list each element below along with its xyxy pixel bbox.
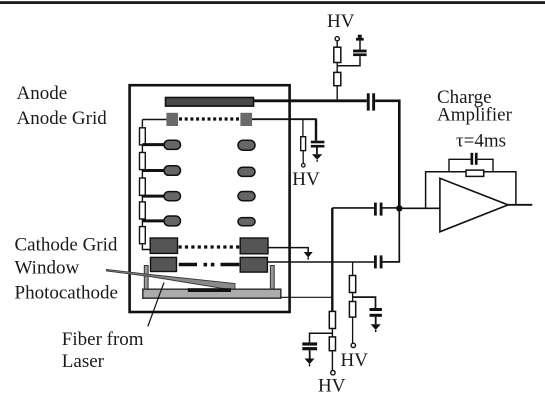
wire grid bias down — [315, 119, 317, 141]
resistor grid bias wire — [302, 120, 304, 137]
svg-text:Laser: Laser — [62, 351, 105, 372]
svg-text:τ=4ms: τ=4ms — [456, 131, 506, 152]
resistor HV top 2 — [334, 72, 341, 85]
window right pad — [240, 257, 267, 272]
wire terminal to R — [336, 41, 338, 47]
field electrode L2 — [164, 166, 181, 176]
wire junction down to C3 — [383, 210, 400, 262]
resistor chain R1 — [140, 128, 146, 145]
wire tap to filter cap — [337, 56, 360, 66]
HV feed line vertical — [331, 208, 333, 312]
svg-text:Photocathode: Photocathode — [15, 282, 118, 303]
capacitor bottom-left filter — [302, 342, 317, 350]
anode grid left pad — [166, 113, 178, 126]
photocathode film — [188, 288, 231, 292]
window left pad — [151, 257, 177, 271]
fiber pointer line — [148, 282, 164, 326]
feedback capacitor branch wire left — [449, 159, 471, 172]
coupling capacitor C2 — [374, 203, 383, 216]
wire between resistors — [336, 63, 338, 73]
field electrode L4 — [164, 216, 181, 226]
wire grid pad to divider chain — [142, 119, 166, 121]
op-amp U1 — [440, 178, 508, 232]
ground bottom-right — [371, 324, 381, 332]
anode grid dotted wires — [179, 117, 240, 120]
bottom-left HV chain resistor 1 — [329, 311, 335, 328]
resistor grid bias — [301, 137, 306, 151]
terminal HV bottom-left — [331, 371, 335, 375]
resistor HV top 1 — [334, 47, 341, 62]
svg-text:Window: Window — [15, 258, 80, 279]
anode grid right pad — [240, 113, 252, 126]
window centerline — [179, 263, 240, 267]
resistor chain R3 — [140, 178, 146, 195]
svg-text:Anode: Anode — [17, 83, 68, 104]
capacitor grid filter — [311, 141, 325, 148]
field electrode R3 — [238, 192, 255, 201]
wire window line to bottom-right chain — [352, 262, 354, 276]
base plate — [143, 289, 281, 298]
detector vessel — [130, 85, 290, 312]
svg-text:Cathode Grid: Cathode Grid — [15, 235, 118, 256]
svg-text:Anode Grid: Anode Grid — [17, 108, 108, 129]
wire resistor to terminal — [302, 151, 304, 164]
svg-text:HV: HV — [327, 11, 355, 32]
wire resistor to anode line — [336, 86, 338, 100]
field electrode L3 — [164, 192, 181, 201]
wire junction to amplifier input — [399, 207, 440, 209]
feedback capacitor — [471, 153, 478, 165]
ground grid filter — [312, 154, 322, 162]
wire C1 to junction corner — [375, 101, 399, 206]
wire HV feed to coupling cap C2 — [332, 207, 374, 209]
wire tap to filter cap — [310, 333, 333, 342]
wire between resistors — [331, 329, 333, 337]
feedback loop wire — [426, 172, 516, 208]
optical fiber — [107, 270, 236, 291]
insulator post right — [270, 266, 274, 291]
bottom-right HV chain resistor 2 — [349, 302, 355, 318]
terminal HV bottom-right — [351, 343, 355, 347]
feedback capacitor branch wire right — [478, 159, 493, 172]
coupling capacitor C3 — [374, 255, 383, 268]
wire tap to filter cap — [353, 297, 376, 308]
cathode grid right pad — [240, 238, 268, 254]
wire cap to ground — [316, 148, 318, 155]
wire cathode grid to ground — [268, 248, 308, 253]
resistor chain R2 — [140, 153, 146, 170]
svg-text:HV: HV — [292, 169, 320, 190]
svg-text:HV: HV — [341, 350, 369, 371]
ground HV filter top — [356, 35, 364, 41]
wire between resistors — [352, 293, 354, 302]
insulator post left — [144, 266, 148, 291]
resistor chain R4 — [140, 202, 146, 219]
field electrode R4 — [238, 218, 255, 226]
capacitor HV filter top — [353, 50, 367, 57]
wire anode output — [253, 99, 367, 102]
feedback resistor — [466, 170, 484, 176]
wire window line to coupling cap — [268, 261, 375, 263]
field electrode R2 — [238, 167, 255, 176]
anode plate — [166, 98, 254, 107]
svg-text:Fiber from: Fiber from — [62, 329, 144, 350]
capacitor bottom-right filter — [370, 308, 382, 317]
field electrode R1 — [238, 140, 255, 150]
wire cap to ground — [359, 41, 361, 50]
terminal HV grid — [302, 164, 306, 168]
ground cathode — [304, 252, 313, 260]
wire R2 to terminal — [331, 351, 333, 371]
wire cap to ground — [309, 350, 311, 358]
output wire — [508, 204, 532, 206]
junction node — [396, 205, 402, 211]
wire photocathode to HV feed — [281, 296, 332, 298]
cathode grid left pad — [150, 238, 177, 253]
wire C2 to junction — [383, 207, 397, 209]
bottom-right HV chain resistor 1 — [349, 276, 355, 293]
terminal HV top — [335, 37, 339, 41]
svg-text:Amplifier: Amplifier — [437, 105, 513, 126]
wire cap to ground — [375, 317, 377, 325]
field cage divider chain wires — [142, 120, 151, 250]
cathode grid dotted wires — [179, 245, 240, 248]
coupling capacitor C1 — [367, 93, 375, 110]
electrode taps — [142, 145, 165, 221]
wire R2 to terminal — [352, 317, 354, 343]
bottom-left HV chain resistor 2 — [329, 337, 335, 351]
ground bottom-left — [305, 359, 315, 367]
wire grid bias out — [252, 118, 317, 120]
field electrode L1 — [164, 140, 181, 149]
resistor chain R5 — [140, 227, 146, 244]
svg-text:HV: HV — [318, 376, 346, 397]
